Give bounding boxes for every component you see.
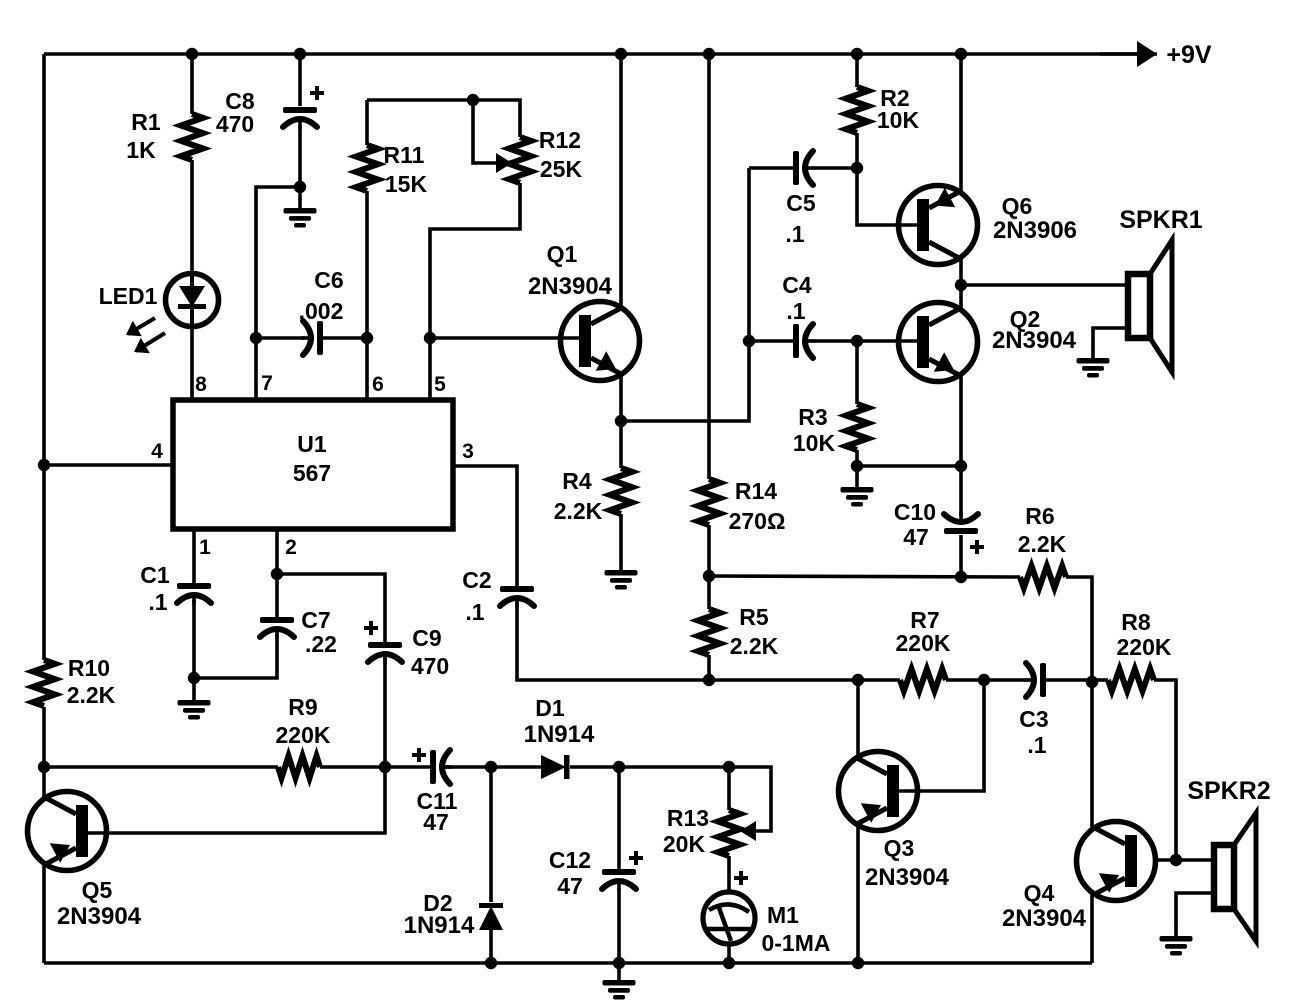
node R13 top junction [723, 761, 735, 773]
pin 7 label [261, 372, 273, 395]
label C10 value [903, 524, 929, 550]
wire Q5 emitter down [42, 864, 46, 963]
node R14 bottom junction [703, 570, 715, 582]
wire R8 left lead [1092, 678, 1108, 682]
label Q4 [1024, 880, 1055, 906]
svg-text:R14: R14 [735, 478, 777, 504]
svg-text:Q3: Q3 [884, 835, 915, 861]
capacitor C6 [301, 321, 323, 355]
label C3 [1019, 706, 1048, 732]
svg-text:R3: R3 [798, 404, 827, 430]
svg-text:47: 47 [557, 873, 583, 899]
speaker SPKR1 [1093, 240, 1172, 372]
potentiometer R12 [496, 137, 531, 183]
node mid-left junction [38, 761, 50, 773]
wire C5 right lead [812, 166, 857, 170]
svg-text:2N3904: 2N3904 [1002, 905, 1087, 932]
wire C8 top lead [298, 54, 302, 106]
wire R2 bottom to C5 junction [855, 133, 859, 168]
label C9 [412, 625, 441, 651]
label R6 value [1018, 531, 1067, 557]
wire C12 bottom lead [617, 888, 621, 963]
label R8 [1121, 609, 1151, 635]
label R10 value [67, 682, 116, 708]
wire R13 wiper path [729, 767, 771, 831]
IC U1 567 [173, 400, 453, 529]
svg-text:2.2K: 2.2K [1018, 531, 1067, 557]
wire R12 bottom to pin5 riser [430, 183, 520, 400]
wire C10 bottom [959, 535, 963, 577]
capacitor C5 [793, 151, 815, 185]
label R5 value [730, 633, 779, 659]
transistor Q2 [899, 303, 978, 382]
wire pin2 corner to C9 [277, 574, 385, 642]
svg-text:+9V: +9V [1166, 41, 1212, 69]
wire bottom rail [44, 961, 1092, 965]
ground below C12 [603, 971, 636, 1000]
label C7 [301, 607, 330, 633]
label R7 [910, 607, 939, 633]
resistor R7 (horizontal) [900, 669, 946, 691]
wire R5 bottom [707, 655, 711, 680]
label R2 [880, 85, 909, 111]
label D1 [535, 695, 565, 721]
wire node to SPKR2 [1176, 858, 1214, 862]
wire R5 node to Q3 collector line [709, 678, 858, 682]
svg-text:6: 6 [372, 373, 384, 396]
label R14 value [729, 508, 786, 534]
wire C9 bottom to junction [383, 655, 387, 767]
svg-text:R6: R6 [1025, 503, 1054, 529]
svg-text:470: 470 [216, 111, 254, 137]
label C12 value [557, 873, 583, 899]
node M1 bottom junction [723, 957, 735, 969]
wire Q2 node to C10 [959, 466, 963, 516]
label Q3 [884, 835, 915, 861]
ground under SPKR2 [1160, 927, 1193, 956]
wire C5 node to Q6 base [857, 168, 917, 225]
svg-text:Q6: Q6 [1002, 193, 1033, 219]
node Q1 emitter junction [615, 415, 627, 427]
wire Q4 base [1157, 858, 1176, 862]
svg-text:Q5: Q5 [82, 877, 113, 903]
svg-text:R12: R12 [539, 127, 581, 153]
svg-text:SPKR2: SPKR2 [1187, 777, 1270, 805]
label M1 range [761, 930, 830, 956]
wire R12 wiper [473, 100, 496, 163]
wire Q2 emitter down [959, 375, 963, 466]
svg-text:2N3904: 2N3904 [528, 273, 613, 300]
node C12 top junction [613, 761, 625, 773]
capacitor C2 [500, 586, 534, 608]
label Q3 part [865, 864, 950, 891]
wire C4 right lead [812, 339, 857, 343]
label C3 value [1027, 732, 1046, 758]
wire R5 top [707, 576, 711, 609]
svg-text:270Ω: 270Ω [729, 508, 786, 534]
ground under SPKR1 [1077, 349, 1110, 378]
svg-text:C12: C12 [549, 847, 591, 873]
pin 1 label [199, 536, 211, 559]
node Q3 collector junction [852, 674, 864, 686]
resistor R4 [610, 468, 632, 514]
wire R9 to C9 junction [320, 765, 385, 769]
wire LED1 to pin 8 [190, 326, 194, 400]
wire to C12 ground [617, 963, 621, 972]
resistor R11 [356, 145, 378, 191]
wire pin3 to C2 [453, 466, 517, 586]
wire left rail pin4 to R10 [42, 465, 46, 660]
resistor R8 (horizontal) [1108, 669, 1154, 691]
wire R13 to M1 [727, 856, 731, 890]
svg-text:4: 4 [151, 440, 163, 463]
svg-text:2N3906: 2N3906 [993, 217, 1077, 244]
node C6 left junction [250, 332, 262, 344]
svg-text:D1: D1 [535, 695, 565, 721]
label R4 [562, 468, 592, 494]
pin 4 label [151, 440, 163, 463]
wire R8 right corner down [1154, 680, 1176, 860]
wire pin4 (U1 left) [44, 463, 173, 467]
diode D1 [541, 755, 570, 779]
svg-text:.1: .1 [1027, 732, 1046, 758]
label C9 value [411, 653, 449, 679]
node C10 bottom junction [955, 571, 967, 583]
label C1 [140, 562, 170, 588]
node R6/C3 junction [1086, 676, 1098, 688]
label R10 [68, 655, 110, 681]
wire Q2 collector up [959, 285, 963, 309]
wire R1 top lead [190, 54, 194, 114]
wire Q4 emitter down [1090, 893, 1094, 963]
node Q6 emitter rail junction [955, 48, 967, 60]
svg-text:8: 8 [195, 373, 207, 396]
wire R2 top lead [855, 54, 859, 87]
label Q2 part [992, 327, 1077, 354]
label R11 value [385, 171, 428, 197]
svg-text:SPKR1: SPKR1 [1119, 206, 1202, 234]
wire to C1 ground [192, 678, 196, 692]
label R8 value [1117, 634, 1172, 660]
capacitor C10 [944, 512, 984, 554]
wire Q5 base riser [88, 767, 385, 833]
wire mid rail R10 to R9 [44, 765, 278, 769]
wire left rail (top corner down to pin 4) [42, 54, 46, 465]
node C6 right junction [361, 332, 373, 344]
svg-text:C1: C1 [140, 562, 170, 588]
node C1 bottom junction [188, 672, 200, 684]
node Q4 base/SPKR2 node [1170, 854, 1182, 866]
label SPKR2 [1187, 777, 1270, 805]
svg-text:47: 47 [423, 809, 449, 835]
svg-text:R5: R5 [739, 604, 769, 630]
svg-text:C5: C5 [786, 190, 816, 216]
wire C12 top lead [617, 767, 621, 869]
wire R3 top [855, 341, 859, 404]
node pin4 junction [38, 459, 50, 471]
label +9V [1166, 41, 1212, 69]
node C4 left junction [743, 335, 755, 347]
label C6 [314, 267, 343, 293]
label C12 [549, 847, 591, 873]
ground under C8 [284, 199, 317, 228]
svg-text:.22: .22 [305, 631, 337, 657]
wire C5 left lead [749, 166, 794, 170]
node Q1 collector rail junction [615, 48, 627, 60]
wire D2 top lead [489, 767, 493, 902]
label C1 value [148, 589, 167, 615]
node pin5 junction [424, 332, 436, 344]
wire R13 top junction to corner [619, 765, 729, 769]
wire R11 bottom to pin 6 [365, 191, 369, 400]
capacitor C4 [793, 324, 815, 358]
svg-text:U1: U1 [297, 431, 327, 457]
meter M1 [703, 892, 755, 944]
label LED1 [99, 283, 158, 309]
pin 6 label [372, 373, 384, 396]
svg-text:2.2K: 2.2K [67, 682, 116, 708]
label D1 part [524, 721, 595, 748]
node R3 bottom junction [851, 460, 863, 472]
svg-text:R1: R1 [131, 109, 161, 135]
svg-text:2N3904: 2N3904 [865, 864, 950, 891]
svg-text:R13: R13 [667, 805, 709, 831]
label R11 [384, 142, 425, 168]
node R5 bottom junction [703, 674, 715, 686]
label D2 [423, 890, 452, 916]
node R7/C3 junction [978, 674, 990, 686]
wire to C8 ground [298, 187, 302, 200]
transistor Q5 (mirrored) [28, 792, 107, 871]
capacitor C8 [283, 86, 324, 129]
wire R4 top [619, 421, 623, 468]
svg-text:LED1: LED1 [99, 283, 158, 309]
node C8 ground junction [294, 181, 306, 193]
wire speaker node to SPKR1 [961, 283, 1128, 287]
wire R7 right lead [946, 678, 984, 682]
node Q2 emitter/R3 junction [955, 460, 967, 472]
svg-text:R4: R4 [562, 468, 592, 494]
capacitor C7 [260, 617, 294, 639]
wire Q6 emitter up [959, 54, 963, 192]
capacitor C11 [412, 748, 452, 784]
svg-text:2.2K: 2.2K [554, 498, 603, 524]
svg-text:M1: M1 [767, 902, 799, 928]
wire Q4 collector [1090, 682, 1094, 829]
wire C1 bottom [192, 600, 196, 678]
wire pin 2 from box [275, 529, 279, 574]
label Q2 [1010, 306, 1041, 332]
label Q5 [82, 877, 113, 903]
label C5 value [785, 221, 804, 247]
label C4 value [786, 298, 805, 324]
label R9 [288, 694, 317, 720]
label R7 value [896, 630, 951, 656]
label Q6 part [993, 217, 1077, 244]
svg-text:1N914: 1N914 [524, 721, 595, 748]
wire Q1 emitter down [619, 375, 623, 421]
label C5 [786, 190, 816, 216]
label Q4 part [1002, 905, 1087, 932]
ground under R4 [605, 561, 638, 590]
resistor R10 [33, 660, 55, 706]
wire Q3 base riser [899, 680, 984, 791]
svg-text:.1: .1 [465, 599, 484, 625]
label R3 [798, 404, 827, 430]
wire C7 top [275, 574, 279, 617]
speaker SPKR2 [1176, 813, 1256, 941]
svg-text:470: 470 [411, 653, 449, 679]
resistor R9 (horizontal) [278, 756, 320, 778]
label R4 value [554, 498, 603, 524]
svg-text:2N3904: 2N3904 [992, 327, 1077, 354]
wire R6 right corner down [1066, 577, 1092, 682]
wire C8 bottom lead [298, 127, 302, 187]
label SPKR1 [1119, 206, 1202, 234]
wire R3 bottom [855, 450, 859, 466]
transistor Q3 (mirrored) [839, 752, 918, 831]
label M1 [767, 902, 799, 928]
wire R4 bottom to ground [619, 514, 623, 562]
label R12 [539, 127, 581, 153]
label C6 value [299, 298, 344, 324]
wire C2 bottom to R5 line [517, 600, 708, 680]
label D2 part [404, 912, 475, 939]
wire C11 left lead [385, 765, 430, 769]
wire Q5 collector [42, 767, 46, 798]
label Q6 [1002, 193, 1033, 219]
svg-text:.002: .002 [299, 298, 344, 324]
label C11 [417, 788, 458, 814]
node pin2 junction [271, 568, 283, 580]
resistor R1 [181, 114, 203, 160]
wire R10 bottom to mid rail junction [42, 707, 46, 767]
svg-text:220K: 220K [896, 630, 951, 656]
label C7 value [305, 631, 337, 657]
wire C8-gnd junction to pin7 corner [256, 187, 300, 400]
svg-text:2: 2 [285, 536, 297, 559]
capacitor C1 [177, 583, 211, 605]
svg-text:C9: C9 [412, 625, 441, 651]
svg-text:R9: R9 [288, 694, 317, 720]
wire pin 1 from box [192, 529, 196, 583]
svg-text:20K: 20K [663, 831, 706, 857]
resistor R3 [846, 404, 868, 450]
wire long vertical from rail to R14 [707, 54, 711, 479]
node long vertical rail junction [703, 48, 715, 60]
label R13 [667, 805, 709, 831]
wire R3 junction to Q2 node [857, 464, 961, 468]
wire R1 to LED1 [190, 160, 194, 274]
node C12 bottom junction [613, 957, 625, 969]
svg-text:567: 567 [293, 460, 331, 486]
svg-text:25K: 25K [540, 156, 583, 182]
svg-text:5: 5 [434, 373, 446, 396]
label R3 value [793, 430, 836, 456]
potentiometer R13 [718, 810, 756, 856]
svg-text:2.2K: 2.2K [730, 633, 779, 659]
node C8 top rail junction [294, 48, 306, 60]
node R2 rail junction [851, 48, 863, 60]
capacitor C9 [364, 621, 402, 664]
label R14 [735, 478, 777, 504]
arrow +9V [1100, 41, 1157, 67]
wire C4 left lead [749, 339, 794, 343]
label R1 value [126, 137, 156, 163]
label R2 value [877, 107, 920, 133]
capacitor C3 [1024, 663, 1046, 697]
wire R11 top horizontal to R12 [367, 100, 520, 137]
wire R14 junction to R6 line [709, 576, 1020, 577]
svg-text:Q1: Q1 [547, 241, 578, 267]
ground under R3 [841, 478, 874, 507]
svg-text:10K: 10K [877, 107, 920, 133]
wire pin5 to Q1 base [430, 336, 579, 340]
label R13 value [663, 831, 706, 857]
node C4 right junction [851, 335, 863, 347]
resistor R6 (horizontal) [1020, 566, 1066, 588]
svg-text:3: 3 [462, 440, 474, 463]
wire Q1 collector [619, 54, 623, 307]
svg-text:47: 47 [903, 524, 929, 550]
svg-text:7: 7 [261, 372, 273, 395]
wire Q1 emitter to C4/C5 riser [621, 168, 749, 421]
svg-text:C10: C10 [894, 499, 936, 525]
label R9 value [276, 722, 331, 748]
svg-text:R10: R10 [68, 655, 110, 681]
wire C7 bottom [194, 634, 277, 678]
wire D2 bottom lead [489, 930, 493, 963]
label Q5 part [57, 903, 142, 930]
wire Q3 emitter down [856, 826, 860, 963]
svg-text:1: 1 [199, 536, 211, 559]
node D2 top junction [485, 761, 497, 773]
wire D1 right lead [570, 765, 619, 769]
label R12 value [540, 156, 583, 182]
wire C6 left lead [256, 336, 305, 340]
wire C6 right lead [323, 336, 367, 340]
ground under C1 [178, 691, 211, 720]
label U1 part [293, 460, 331, 486]
pin 3 label [462, 440, 474, 463]
svg-text:C2: C2 [462, 567, 491, 593]
label C8 value [216, 111, 254, 137]
node Q3 emitter bottom junction [852, 957, 864, 969]
label C4 [782, 272, 812, 298]
wire C3 right lead [1046, 678, 1092, 682]
svg-text:1N914: 1N914 [404, 912, 475, 939]
label C11 value [423, 809, 449, 835]
node D2 bottom junction [485, 957, 497, 969]
svg-text:15K: 15K [385, 171, 428, 197]
pin 5 label [434, 373, 446, 396]
label M1 plus [734, 871, 748, 885]
wire D1 left lead [491, 765, 541, 769]
wire C11 right lead [441, 765, 491, 769]
svg-text:2N3904: 2N3904 [57, 903, 142, 930]
svg-text:.1: .1 [148, 589, 167, 615]
label C2 [462, 567, 491, 593]
node speaker1 node [955, 279, 967, 291]
transistor Q4 (mirrored) [1077, 822, 1156, 901]
svg-text:0-1MA: 0-1MA [761, 930, 830, 956]
node C5 right junction [851, 162, 863, 174]
wire C3 left lead [984, 678, 1028, 682]
diode D2 [479, 903, 503, 930]
label R6 [1025, 503, 1054, 529]
label R5 [739, 604, 769, 630]
wire Q6 collector down [959, 258, 963, 285]
